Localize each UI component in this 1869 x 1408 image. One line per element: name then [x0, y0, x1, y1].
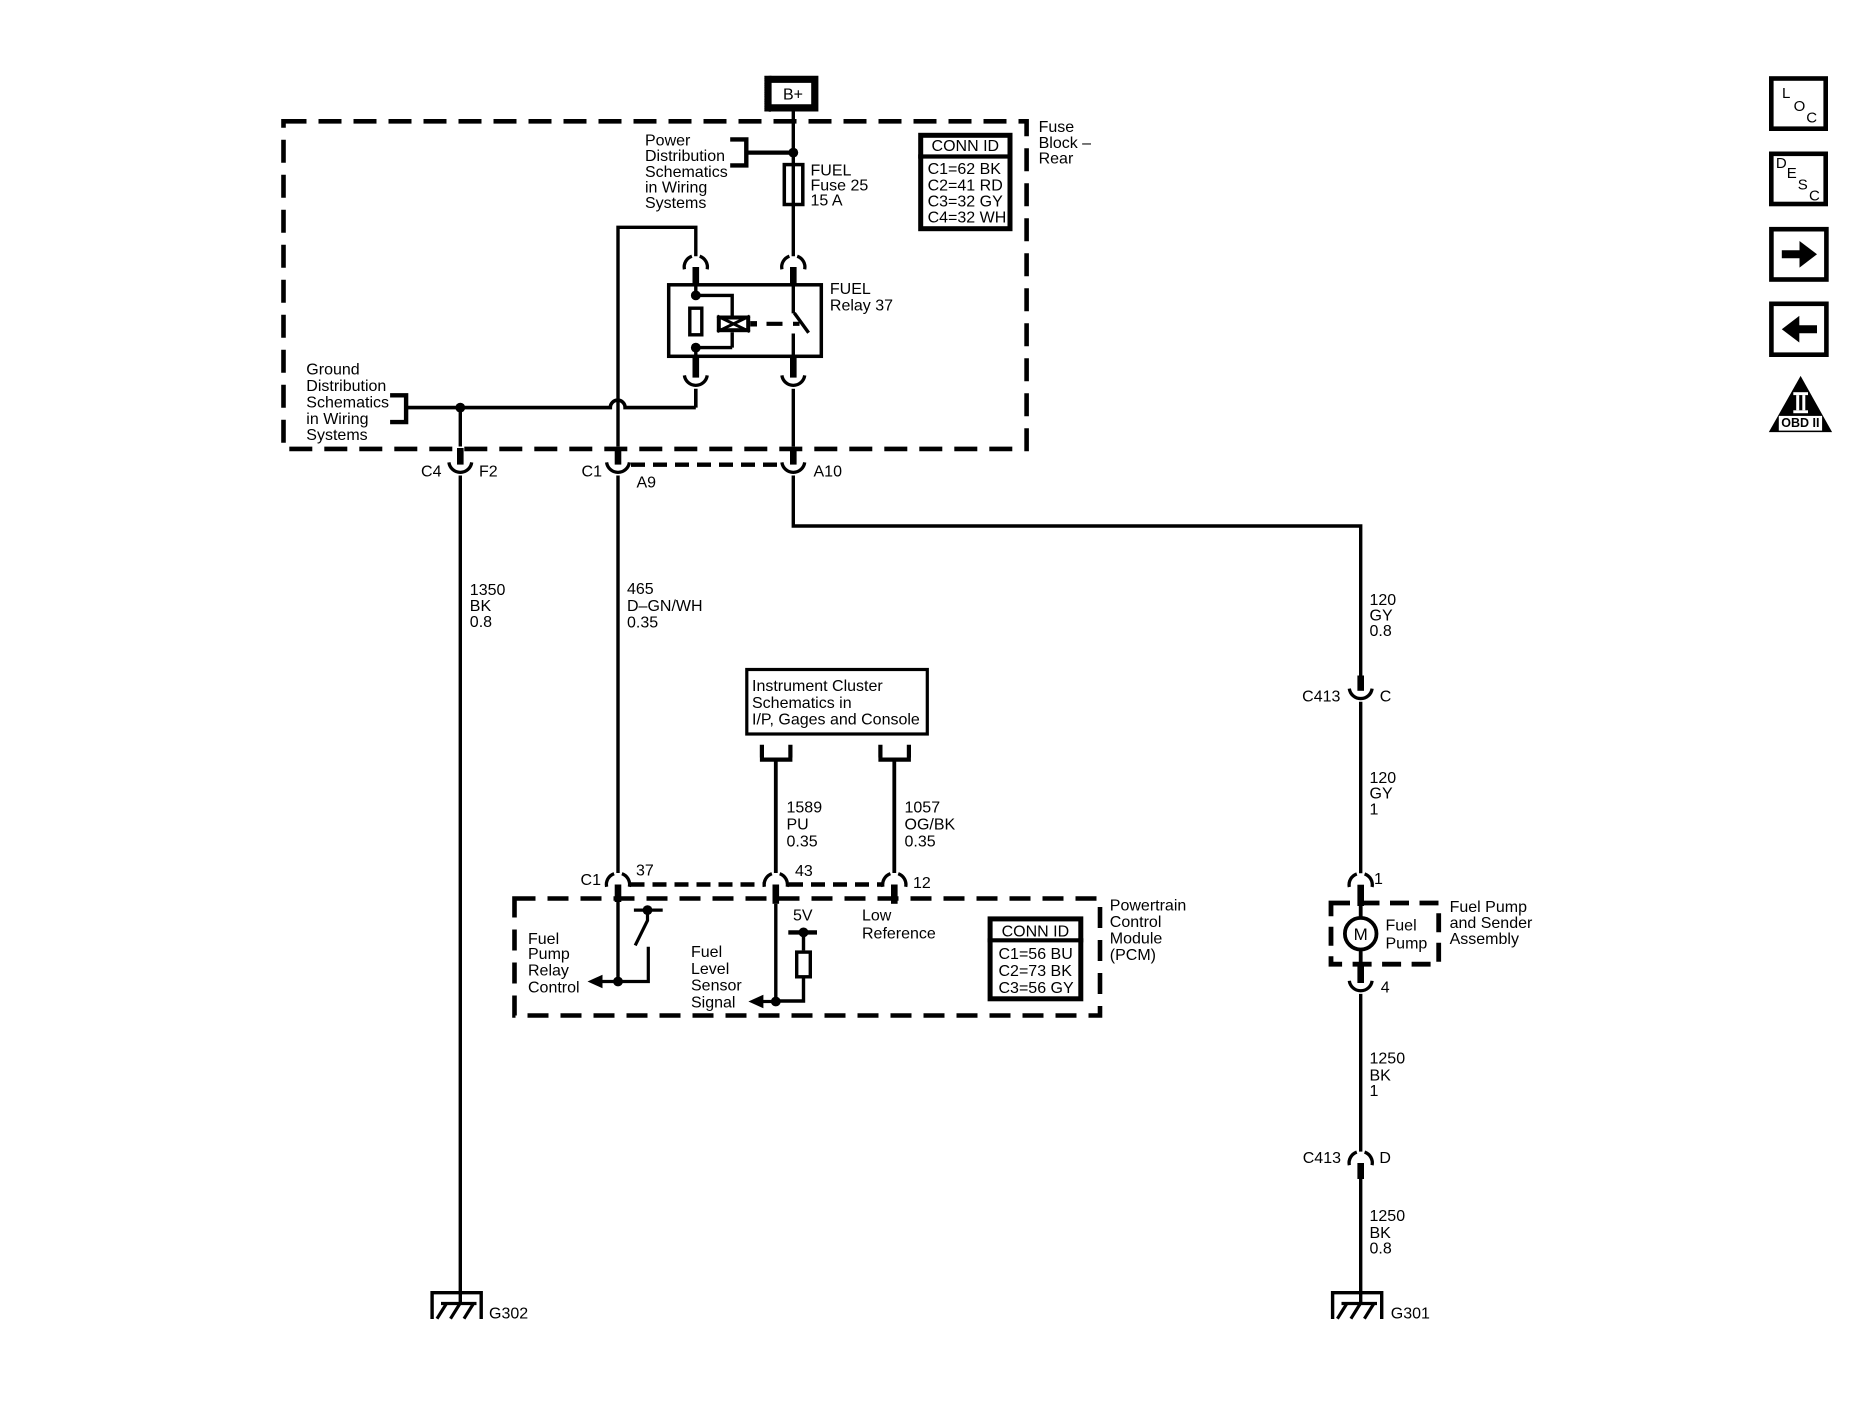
svg-text:A9: A9 [637, 474, 657, 491]
CONN ID table fuse block [918, 135, 1012, 228]
svg-text:Pump: Pump [1386, 935, 1428, 952]
icon forward arrow box [1771, 229, 1826, 279]
node junction dot ground tap to C4 F2 [455, 403, 465, 413]
svg-text:D–GN/WH: D–GN/WH [627, 598, 703, 615]
label Fuse Block - Rear [1039, 119, 1092, 167]
wire fuel level sensor signal inside PCM [774, 904, 777, 1002]
svg-text:F2: F2 [479, 463, 498, 480]
node junction dot relay coil bottom [691, 343, 701, 353]
svg-text:37: 37 [636, 863, 654, 880]
wire relay output A10 down [792, 389, 795, 447]
svg-text:Fuse: Fuse [1039, 119, 1075, 136]
svg-text:C413: C413 [1303, 1150, 1341, 1167]
label wire 1250 BK 0.8 [1370, 1208, 1406, 1258]
svg-text:Distribution: Distribution [306, 378, 386, 395]
svg-text:15 A: 15 A [811, 193, 843, 210]
label FUEL Fuse 25 15 A [811, 163, 869, 210]
svg-text:C2=73 BK: C2=73 BK [999, 963, 1073, 980]
svg-text:Relay: Relay [528, 963, 569, 980]
svg-text:1057: 1057 [905, 800, 941, 817]
svg-text:Instrument Cluster: Instrument Cluster [752, 678, 883, 695]
svg-text:M: M [1354, 925, 1368, 944]
dotted connector line 37 to 43 to 12 [631, 882, 882, 886]
svg-text:Module: Module [1110, 931, 1163, 948]
instrument cluster reference box [747, 670, 928, 735]
svg-text:43: 43 [795, 863, 813, 880]
fuel pump and sender assembly dashed box [1331, 903, 1439, 964]
wire pump pin 4 to C413 D [1359, 994, 1362, 1152]
exit tab right under cluster box [878, 745, 911, 760]
label Fuel Pump and Sender Assembly [1450, 899, 1533, 948]
icon back arrow box [1771, 304, 1826, 355]
label wire 1057 OG/BK 0.35 [905, 800, 956, 851]
svg-text:120: 120 [1370, 770, 1397, 787]
svg-text:S: S [1798, 176, 1808, 193]
svg-text:(PCM): (PCM) [1110, 947, 1156, 964]
connector PCM pin 12 [883, 874, 906, 904]
svg-text:in Wiring: in Wiring [306, 411, 368, 428]
svg-text:1350: 1350 [470, 582, 506, 599]
svg-text:12: 12 [913, 875, 931, 892]
wire ground distribution with hop over A9 wire [406, 389, 696, 408]
connector arc relay top left pin [684, 256, 707, 269]
fuse block rear dashed box [284, 121, 1027, 449]
wire relay feed loop to A9 [618, 227, 696, 446]
svg-text:4: 4 [1381, 980, 1390, 997]
connector pump pin 1 [1349, 874, 1372, 906]
relay coil branch wires [696, 284, 732, 357]
wire C413 C to pump connector 1 [1359, 702, 1362, 874]
svg-text:D: D [1776, 155, 1787, 172]
svg-text:A10: A10 [814, 463, 843, 480]
svg-text:C4: C4 [421, 463, 442, 480]
icon LOC box [1771, 79, 1825, 129]
svg-text:C4=32 WH: C4=32 WH [928, 210, 1007, 227]
svg-text:C3=32 GY: C3=32 GY [928, 193, 1003, 210]
svg-text:Reference: Reference [862, 925, 936, 942]
svg-text:C413: C413 [1302, 689, 1340, 706]
label Low Reference [862, 907, 936, 942]
label wire 1350 BK 0.8 [470, 582, 506, 631]
bracket for power distribution note [730, 137, 746, 167]
svg-text:Fuel Pump: Fuel Pump [1450, 899, 1527, 916]
svg-text:C1=56 BU: C1=56 BU [999, 946, 1073, 963]
svg-text:Low: Low [862, 907, 892, 924]
svg-text:Signal: Signal [691, 994, 735, 1011]
svg-text:O: O [1794, 98, 1806, 115]
svg-text:0.35: 0.35 [787, 833, 818, 850]
svg-text:C: C [1809, 188, 1820, 205]
coil solenoid box with X inside relay [717, 316, 757, 332]
resistor inside relay [690, 308, 702, 335]
note text Power Distribution Schematics in Wiring Systems [645, 133, 728, 212]
svg-text:Fuel: Fuel [691, 944, 722, 961]
svg-text:1250: 1250 [1370, 1208, 1406, 1225]
node junction dot power distribution tap [788, 148, 798, 158]
svg-text:1: 1 [1374, 871, 1383, 888]
note text Ground Distribution Schematics in Wiring Systems [306, 362, 389, 445]
connector A10 [782, 448, 805, 472]
label Powertrain Control Module (PCM) [1110, 898, 1186, 965]
wire A9 to PCM C1 37 [616, 476, 619, 874]
svg-text:Control: Control [1110, 914, 1162, 931]
motor M fuel pump [1345, 906, 1377, 964]
svg-text:Powertrain: Powertrain [1110, 898, 1186, 915]
icon OBD II warning triangle [1769, 376, 1832, 432]
fuse FUEL Fuse 25 15 A [784, 163, 803, 256]
svg-text:0.8: 0.8 [1370, 1241, 1392, 1258]
svg-text:Assembly: Assembly [1450, 931, 1519, 948]
svg-text:BK: BK [1370, 1225, 1392, 1242]
svg-text:B+: B+ [783, 87, 803, 104]
svg-text:1250: 1250 [1370, 1050, 1406, 1067]
svg-text:Rear: Rear [1039, 150, 1074, 167]
wire B+ down to fuse [792, 111, 795, 163]
svg-text:1: 1 [1370, 1083, 1379, 1100]
CONN ID table PCM [988, 919, 1084, 999]
label wire 465 D-GN/WH 0.35 [627, 581, 703, 632]
svg-text:Power: Power [645, 133, 691, 150]
label wire 120 GY 1 [1370, 770, 1397, 818]
label FUEL Relay 37 [830, 281, 893, 314]
node junction dot relay coil top [691, 291, 701, 301]
svg-text:1589: 1589 [787, 800, 823, 817]
connector C413 C [1349, 676, 1372, 699]
connector arc relay top right pin [782, 256, 805, 269]
PCM dashed box [515, 899, 1101, 1016]
svg-text:Control: Control [528, 980, 580, 997]
svg-text:465: 465 [627, 581, 654, 598]
label wire 120 GY 0.8 [1370, 592, 1397, 640]
svg-text:GY: GY [1370, 608, 1393, 625]
svg-text:Sensor: Sensor [691, 978, 742, 995]
svg-text:CONN ID: CONN ID [1002, 923, 1070, 940]
svg-text:120: 120 [1370, 592, 1397, 609]
svg-text:0.35: 0.35 [905, 833, 936, 850]
connector arc relay bottom left pin [692, 357, 699, 378]
arrow fuel pump relay control [588, 975, 619, 989]
svg-text:Block –: Block – [1039, 135, 1092, 152]
svg-text:Relay 37: Relay 37 [830, 297, 893, 314]
battery positive feed B+ box [764, 76, 815, 112]
connector pump pin 4 [1349, 964, 1372, 991]
wire cluster to PCM pin 12 [892, 760, 896, 873]
svg-text:Level: Level [691, 961, 729, 978]
svg-text:and Sender: and Sender [1450, 915, 1533, 932]
svg-text:Schematics: Schematics [306, 394, 389, 411]
label wire 1250 BK 1 [1370, 1050, 1406, 1100]
icon DESC box [1771, 154, 1825, 205]
relay switch contact and blade [793, 284, 808, 357]
label Fuel Level Sensor Signal [691, 944, 742, 1012]
label Fuel Pump Relay Control [528, 931, 580, 997]
ground symbol G301 [1333, 1293, 1382, 1319]
connector PCM pin 43 [764, 874, 787, 904]
svg-text:Ground: Ground [306, 362, 359, 379]
dotted connector line C1 A9 to A10 [631, 463, 781, 467]
label Fuel Pump inside box [1386, 917, 1428, 952]
connector PCM C1 pin 37 [606, 874, 629, 902]
connector arc relay bottom right pin [790, 357, 797, 378]
relay box FUEL Relay 37 [669, 285, 822, 357]
svg-text:I/P, Gages and Console: I/P, Gages and Console [752, 712, 920, 729]
svg-text:OG/BK: OG/BK [905, 817, 956, 834]
svg-text:E: E [1787, 165, 1797, 182]
svg-text:Fuel: Fuel [1386, 917, 1417, 934]
svg-text:Schematics in: Schematics in [752, 695, 852, 712]
switch driver inside PCM [618, 905, 663, 981]
svg-text:Schematics: Schematics [645, 164, 728, 181]
node junction dot relay control output [613, 977, 623, 987]
svg-text:0.35: 0.35 [627, 615, 658, 632]
svg-text:L: L [1782, 85, 1790, 102]
5V supply bar and pullup resistor [776, 928, 817, 1002]
wire C4 F2 to ground G302 [459, 476, 462, 1304]
svg-text:Systems: Systems [306, 427, 367, 444]
svg-text:C: C [1806, 110, 1817, 127]
wire C4 branch down [459, 408, 462, 447]
connector C4 F2 [449, 448, 472, 472]
svg-text:C3=56 GY: C3=56 GY [999, 980, 1074, 997]
svg-text:BK: BK [470, 598, 492, 615]
svg-text:0.8: 0.8 [470, 614, 492, 631]
svg-text:D: D [1379, 1150, 1391, 1167]
svg-text:CONN ID: CONN ID [932, 138, 1000, 155]
svg-text:BK: BK [1370, 1067, 1392, 1084]
svg-text:Systems: Systems [645, 195, 706, 212]
bracket for ground distribution note [390, 393, 406, 424]
svg-text:0.8: 0.8 [1370, 623, 1392, 640]
ground symbol G302 [432, 1293, 481, 1319]
svg-text:C: C [1380, 689, 1392, 706]
svg-text:OBD II: OBD II [1781, 416, 1819, 430]
svg-text:C2=41 RD: C2=41 RD [928, 177, 1003, 194]
svg-text:Pump: Pump [528, 946, 570, 963]
svg-text:FUEL: FUEL [830, 281, 871, 298]
exit tab left under cluster box [760, 745, 793, 760]
wire C413 D to ground G301 [1359, 1179, 1362, 1304]
arrow fuel level sensor signal [748, 995, 775, 1009]
svg-text:5V: 5V [793, 907, 813, 924]
relay actuator dashed link [767, 322, 800, 326]
connector C1 A9 [607, 448, 630, 472]
svg-text:PU: PU [787, 817, 809, 834]
wire fuel pump relay control inside PCM [616, 902, 619, 982]
svg-text:C1: C1 [582, 463, 603, 480]
wire A10 to C413 [793, 476, 1360, 676]
svg-text:Distribution: Distribution [645, 148, 725, 165]
connector C413 D [1349, 1152, 1372, 1179]
wire power distribution tap [746, 151, 789, 155]
svg-text:GY: GY [1370, 786, 1393, 803]
svg-text:C1: C1 [581, 872, 602, 889]
svg-text:G301: G301 [1391, 1306, 1430, 1323]
label wire 1589 PU 0.35 [787, 800, 823, 851]
svg-text:G302: G302 [489, 1306, 528, 1323]
svg-text:1: 1 [1370, 801, 1379, 818]
wire cluster to PCM pin 43 [774, 760, 778, 873]
svg-text:C1=62 BK: C1=62 BK [928, 161, 1002, 178]
node junction dot fuel level signal [771, 997, 781, 1007]
svg-text:in Wiring: in Wiring [645, 179, 707, 196]
